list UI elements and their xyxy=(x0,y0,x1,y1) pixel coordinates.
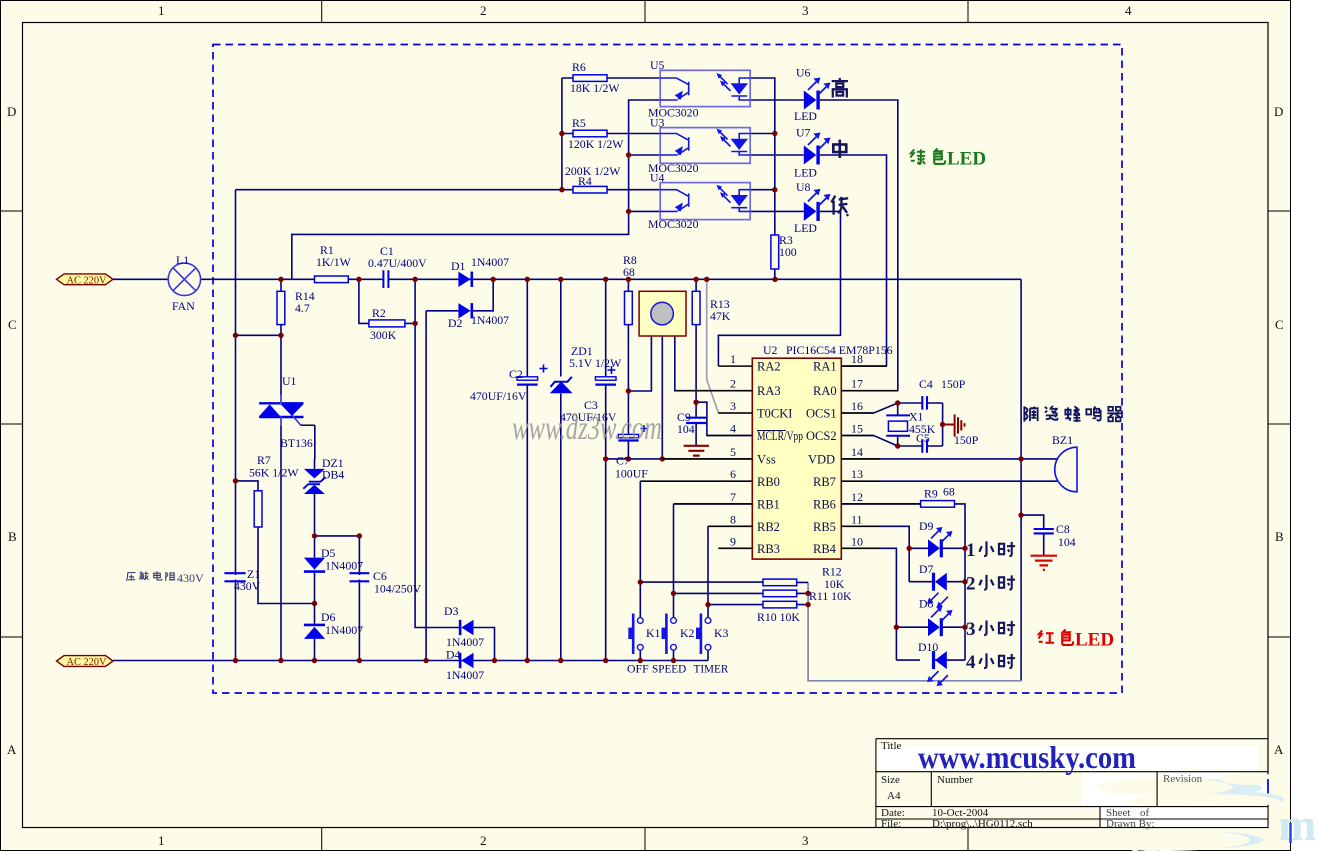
svg-text:2: 2 xyxy=(730,377,736,391)
wire AC neutral bottom bus xyxy=(113,660,708,662)
svg-text:U2: U2 xyxy=(763,343,778,357)
svg-text:12: 12 xyxy=(851,490,863,504)
svg-text:16: 16 xyxy=(851,399,863,413)
svg-text:120K 1/2W: 120K 1/2W xyxy=(568,137,624,151)
svg-text:LED: LED xyxy=(794,166,817,180)
svg-text:RA0: RA0 xyxy=(813,384,837,398)
svg-text:R11 10K: R11 10K xyxy=(809,589,852,603)
svg-text:4: 4 xyxy=(1125,3,1132,18)
wire T0CKI gray link xyxy=(707,279,753,413)
svg-text:1N4007: 1N4007 xyxy=(446,668,484,682)
svg-text:D:\prog\..\HG0112.sch: D:\prog\..\HG0112.sch xyxy=(932,818,1033,830)
wire C8 stub xyxy=(1021,515,1044,555)
IC pin names xyxy=(757,360,837,557)
wire red LED right rail xyxy=(964,548,966,660)
ground below C8 xyxy=(1031,556,1058,570)
svg-text:www.mcusky.com: www.mcusky.com xyxy=(918,739,1136,775)
svg-text:RB6: RB6 xyxy=(813,498,836,512)
wire bus to VDD vertical xyxy=(1020,279,1022,681)
svg-text:LED: LED xyxy=(794,109,817,123)
wire C9 stem xyxy=(695,402,697,445)
resistor R14 xyxy=(277,291,285,324)
varistor Z1 xyxy=(224,573,245,581)
LED D8 xyxy=(928,606,953,636)
svg-text:D8: D8 xyxy=(919,597,934,611)
svg-text:Revision: Revision xyxy=(1163,773,1203,785)
svg-text:3: 3 xyxy=(966,619,976,640)
wire D8 row xyxy=(896,626,965,628)
wire D2 anode vertical xyxy=(425,311,427,661)
svg-text:K3: K3 xyxy=(714,626,729,640)
svg-text:Vss: Vss xyxy=(757,453,776,467)
LED D7 xyxy=(927,573,948,608)
svg-text:BT136: BT136 xyxy=(280,436,313,450)
svg-text:104: 104 xyxy=(677,422,695,436)
svg-text:C5: C5 xyxy=(916,431,930,445)
svg-text:R2: R2 xyxy=(372,306,386,320)
svg-text:U4: U4 xyxy=(650,171,665,185)
svg-text:68: 68 xyxy=(623,265,635,279)
wire RB7 row to buzzer xyxy=(841,480,1057,482)
capacitor C2 xyxy=(517,365,548,385)
diode D3 xyxy=(460,620,473,635)
diode D2 xyxy=(458,303,471,318)
text 红色LED xyxy=(1038,629,1073,644)
svg-text:File:: File: xyxy=(881,818,901,830)
svg-text:9: 9 xyxy=(730,535,736,549)
ground sideways at crystal xyxy=(943,415,965,437)
wire VDD row xyxy=(841,458,1057,460)
wire RB1 to K2 and R11 xyxy=(674,504,753,618)
MOC U5 innards xyxy=(660,73,750,100)
wire R12 left xyxy=(640,581,763,583)
svg-text:A: A xyxy=(7,742,17,757)
MOC box U4 xyxy=(660,183,750,220)
wire R8 C7 branch xyxy=(627,279,629,459)
svg-text:D: D xyxy=(7,104,16,119)
svg-text:1N4007: 1N4007 xyxy=(471,255,509,269)
port AC 220V top xyxy=(57,274,114,286)
wire C5 row xyxy=(898,445,943,447)
svg-text:430V: 430V xyxy=(234,579,261,593)
resistor R7 xyxy=(254,491,262,527)
wire R11 left xyxy=(674,592,764,594)
svg-text:U1: U1 xyxy=(282,374,297,388)
svg-text:D6: D6 xyxy=(321,610,336,624)
svg-text:T0CKI: T0CKI xyxy=(757,407,792,421)
svg-text:D7: D7 xyxy=(919,562,934,576)
resistor R11 xyxy=(763,590,797,597)
wire RB4 rail xyxy=(841,548,896,660)
sensor RT1 xyxy=(639,291,686,336)
svg-text:430V: 430V xyxy=(177,571,204,585)
ground below C9 xyxy=(684,446,709,456)
svg-text:8: 8 xyxy=(730,513,736,527)
svg-text:D2: D2 xyxy=(448,316,463,330)
junction dots bottom bus xyxy=(233,658,676,663)
diode D1 xyxy=(458,272,471,287)
svg-text:www.dz3w.com: www.dz3w.com xyxy=(512,410,662,447)
wire D3 output xyxy=(473,628,494,661)
svg-text:C4: C4 xyxy=(919,377,933,391)
wire D10 row xyxy=(896,659,965,661)
text 绿色LED xyxy=(910,148,945,164)
wire R6-R5-R4 left vertical xyxy=(561,78,563,190)
svg-text:OCS1: OCS1 xyxy=(806,407,837,421)
svg-text:104: 104 xyxy=(1058,535,1076,549)
svg-text:RB7: RB7 xyxy=(813,475,836,489)
junction dots misc xyxy=(233,131,1024,630)
wire left long vertical xyxy=(235,190,237,661)
svg-text:R6: R6 xyxy=(572,60,586,74)
svg-text:C2: C2 xyxy=(509,367,523,381)
chinese 高 xyxy=(832,78,848,98)
wire C4 C5 right link xyxy=(942,403,944,446)
wire K1 bottom xyxy=(639,650,641,660)
svg-text:D9: D9 xyxy=(919,519,934,533)
svg-text:LED: LED xyxy=(1075,630,1114,651)
svg-text:Drawn By:: Drawn By: xyxy=(1106,818,1155,830)
svg-text:FAN: FAN xyxy=(172,299,195,313)
diode D6 xyxy=(304,625,325,639)
wire sensor pin2 to Vss xyxy=(661,336,663,459)
svg-text:RB0: RB0 xyxy=(757,475,780,489)
MOC box U3 xyxy=(660,128,750,164)
svg-text:A: A xyxy=(1274,742,1284,757)
wire C6 branch xyxy=(358,536,360,661)
svg-text:Title: Title xyxy=(881,740,902,752)
capacitor C9 xyxy=(686,418,706,423)
wire OSC1 diagonal xyxy=(841,403,897,413)
svg-text:150P: 150P xyxy=(954,433,979,447)
wire RB0 to K1 and R12 xyxy=(640,481,752,617)
wire RB6 to R9 xyxy=(841,504,965,548)
svg-text:6: 6 xyxy=(730,467,736,481)
wire triac branch xyxy=(280,335,282,660)
svg-text:4: 4 xyxy=(966,652,976,673)
svg-text:RB1: RB1 xyxy=(757,498,780,512)
wire R2 branch xyxy=(359,279,415,323)
svg-text:2: 2 xyxy=(480,3,487,18)
svg-text:RA2: RA2 xyxy=(757,360,781,374)
capacitor C1 xyxy=(383,270,388,289)
LED D9 xyxy=(928,527,953,557)
svg-text:LED: LED xyxy=(794,221,817,235)
svg-text:K2: K2 xyxy=(680,626,695,640)
resistor R10 xyxy=(763,601,797,608)
svg-text:OFF: OFF xyxy=(627,662,649,676)
port AC 220V bottom xyxy=(57,656,114,668)
svg-text:3: 3 xyxy=(802,3,809,18)
wire R12 R11 R10 right ends xyxy=(797,582,808,604)
svg-text:RA1: RA1 xyxy=(813,360,837,374)
svg-text:C: C xyxy=(1275,317,1284,332)
resistor R6 xyxy=(573,75,607,82)
svg-text:D1: D1 xyxy=(451,259,466,273)
svg-text:TIMER: TIMER xyxy=(694,664,729,676)
svg-text:C: C xyxy=(8,317,17,332)
wire R5 row xyxy=(562,133,660,135)
svg-text:DB4: DB4 xyxy=(322,468,344,482)
capacitor C4 xyxy=(922,396,927,410)
svg-text:L1: L1 xyxy=(176,253,189,267)
resistor R12 xyxy=(763,579,797,586)
wire R6 row xyxy=(562,77,660,79)
wire K3 bottom xyxy=(707,650,709,660)
svg-text:2: 2 xyxy=(966,574,976,595)
wire DZ1 to C6 xyxy=(315,535,360,537)
svg-text:C8: C8 xyxy=(1056,522,1070,536)
svg-text:MOC3020: MOC3020 xyxy=(648,217,699,231)
wire R10 left xyxy=(708,604,763,606)
wire MOC outputs to green LEDs xyxy=(750,100,804,211)
resistor R2 xyxy=(369,320,405,327)
wire OSC2 diagonal xyxy=(841,436,897,447)
svg-text:Size: Size xyxy=(881,774,900,786)
svg-text:RB3: RB3 xyxy=(757,542,780,556)
MOC U4 innards xyxy=(660,185,750,212)
text 压敏电阻430V xyxy=(127,571,176,581)
svg-text:1K/1W: 1K/1W xyxy=(316,255,352,269)
svg-text:VDD: VDD xyxy=(808,453,835,467)
wire pin17 riser xyxy=(841,390,898,392)
svg-text:D3: D3 xyxy=(444,604,459,618)
svg-text:47K: 47K xyxy=(710,309,731,323)
capacitor C5 xyxy=(922,439,927,453)
resistor R5 xyxy=(573,130,607,137)
svg-text:4.7: 4.7 xyxy=(295,301,310,315)
MOC box U5 xyxy=(660,70,750,106)
switch K2 xyxy=(662,614,677,655)
svg-text:Number: Number xyxy=(937,774,973,786)
wire C2 branch xyxy=(526,279,528,660)
svg-text:K1: K1 xyxy=(646,626,661,640)
triac U1 BT136 xyxy=(259,395,315,426)
svg-text:18K 1/2W: 18K 1/2W xyxy=(570,81,620,95)
svg-text:1: 1 xyxy=(966,540,976,561)
wire U7 cathode to pin18 xyxy=(820,155,887,366)
svg-text:11: 11 xyxy=(851,513,863,527)
diode D4 xyxy=(460,653,473,668)
svg-text:B: B xyxy=(8,529,17,544)
svg-text:RA3: RA3 xyxy=(757,384,781,398)
switch K1 xyxy=(628,614,643,655)
svg-text:1: 1 xyxy=(158,3,165,18)
svg-text:D4: D4 xyxy=(446,648,461,662)
wire U6 cathode to pin17 xyxy=(820,100,898,391)
chinese 低 xyxy=(831,196,848,216)
wire RB5 rail xyxy=(841,526,909,581)
svg-text:U3: U3 xyxy=(650,116,665,130)
wire R13 branch xyxy=(695,279,697,402)
svg-text:BZ1: BZ1 xyxy=(1052,433,1073,447)
svg-text:U6: U6 xyxy=(796,66,811,80)
svg-text:R4: R4 xyxy=(578,174,592,188)
IC pin numbers xyxy=(730,352,863,549)
junction dots top bus xyxy=(278,277,778,282)
IC U2 PIC16C54 xyxy=(640,358,920,559)
svg-text:B: B xyxy=(1275,529,1284,544)
svg-text:14: 14 xyxy=(851,445,863,459)
wire crystal stems xyxy=(897,403,899,446)
svg-text:SPEED: SPEED xyxy=(652,664,686,676)
svg-text:0.47U/400V: 0.47U/400V xyxy=(368,256,427,270)
selection dashed rectangle xyxy=(213,45,1122,694)
svg-text:150P: 150P xyxy=(941,377,966,391)
capacitor C7 xyxy=(618,425,647,441)
wire D9 row xyxy=(909,547,965,549)
capacitor C6 xyxy=(350,573,370,581)
switch K3 xyxy=(696,614,711,655)
wire R7 branch xyxy=(236,481,315,604)
capacitor C8 xyxy=(1034,529,1054,533)
svg-text:56K 1/2W: 56K 1/2W xyxy=(249,466,299,480)
wire C3 branch xyxy=(605,279,607,660)
wire sensor pin3 to RA3 xyxy=(675,336,753,391)
resistor R1 xyxy=(315,276,349,283)
svg-text:U7: U7 xyxy=(796,126,811,140)
svg-text:MCLR/Vpp: MCLR/Vpp xyxy=(757,429,803,443)
svg-text:U8: U8 xyxy=(796,180,811,194)
svg-text:3: 3 xyxy=(802,833,809,848)
svg-text:AC 220V: AC 220V xyxy=(67,656,107,668)
lamp L1 FAN xyxy=(168,263,200,295)
svg-text:C7: C7 xyxy=(616,454,630,468)
svg-text:5.1V 1/2W: 5.1V 1/2W xyxy=(569,356,622,370)
wire R14 branch xyxy=(236,279,282,335)
wire pin9 stub xyxy=(718,547,752,549)
svg-text:5: 5 xyxy=(730,445,736,459)
svg-text:10: 10 xyxy=(851,535,863,549)
wire pull-up return gray loop xyxy=(808,582,1021,680)
LED U6 xyxy=(804,78,831,110)
svg-text:1: 1 xyxy=(730,352,736,366)
resistor R4 xyxy=(573,186,607,193)
wire D7 row xyxy=(909,581,965,583)
svg-text:1: 1 xyxy=(158,833,165,848)
chinese 中 xyxy=(833,140,846,158)
svg-text:R10 10K: R10 10K xyxy=(757,610,800,624)
svg-text:3: 3 xyxy=(730,399,736,413)
svg-text:D: D xyxy=(1274,104,1283,119)
resistor R3 xyxy=(771,235,779,269)
wire pin18 riser xyxy=(841,365,887,367)
svg-text:200K 1/2W: 200K 1/2W xyxy=(565,164,621,178)
svg-text:U5: U5 xyxy=(650,58,665,72)
wire ZD1 branch xyxy=(560,279,562,660)
svg-text:R9: R9 xyxy=(924,487,938,501)
svg-text:1N4007: 1N4007 xyxy=(471,313,509,327)
wire AC live top bus xyxy=(113,278,1021,280)
LED U7 xyxy=(804,133,831,165)
wire C1-right vertical to D3 xyxy=(415,279,461,627)
svg-text:RB5: RB5 xyxy=(813,520,836,534)
svg-text:104/250V: 104/250V xyxy=(374,582,422,596)
diode D5 xyxy=(304,558,325,572)
zener ZD1 xyxy=(551,377,572,393)
svg-text:68: 68 xyxy=(943,485,955,499)
svg-text:4: 4 xyxy=(730,422,736,436)
resistor R9 xyxy=(921,501,955,508)
svg-text:2: 2 xyxy=(480,833,487,848)
wire C4 row xyxy=(898,402,943,404)
svg-text:1N4007: 1N4007 xyxy=(325,559,363,573)
wire R4 row xyxy=(236,189,661,191)
wire MOC anode tops to R3 xyxy=(750,78,775,279)
wire Vss row xyxy=(606,458,753,460)
svg-text:PIC16C54 EM78P156: PIC16C54 EM78P156 xyxy=(786,343,893,357)
svg-text:18: 18 xyxy=(851,352,863,366)
cyan watermark remnants xyxy=(1118,779,1316,851)
svg-text:300K: 300K xyxy=(370,328,397,342)
svg-text:1N4007: 1N4007 xyxy=(325,623,363,637)
wire K2 bottom xyxy=(673,650,675,660)
svg-text:15: 15 xyxy=(851,422,863,436)
buzzer BZ1 xyxy=(1055,447,1077,492)
svg-text:17: 17 xyxy=(851,377,863,391)
svg-text:OCS2: OCS2 xyxy=(806,429,837,443)
svg-text:100UF: 100UF xyxy=(615,467,648,481)
crystal X1 xyxy=(886,415,910,435)
svg-text:R5: R5 xyxy=(572,116,586,130)
svg-text:D10: D10 xyxy=(918,640,938,654)
svg-text:RB4: RB4 xyxy=(813,542,837,556)
diac DZ1 DB4 xyxy=(303,469,325,494)
wire D2 branch xyxy=(426,279,493,311)
resistor R8 xyxy=(625,291,633,324)
wire U8 cathode to pin1 xyxy=(718,211,840,366)
wire MCLR reroute xyxy=(696,402,752,435)
wire R8 to sensor pin1 xyxy=(628,336,651,391)
wire diac D5 D6 chain xyxy=(314,425,316,660)
text 陶瓷蜂鸣器 xyxy=(1024,406,1121,422)
svg-text:RB2: RB2 xyxy=(757,520,780,534)
svg-text:13: 13 xyxy=(851,467,863,481)
svg-text:m: m xyxy=(1278,799,1316,850)
LED D10 xyxy=(927,651,948,686)
MOC U3 innards xyxy=(660,129,750,156)
svg-text:A4: A4 xyxy=(887,790,901,802)
resistor R13 xyxy=(692,291,700,324)
svg-text:7: 7 xyxy=(730,490,736,504)
wire MOC cathode return xyxy=(292,100,660,279)
svg-text:100: 100 xyxy=(779,245,797,259)
capacitor C3 xyxy=(595,366,616,385)
svg-text:AC 220V: AC 220V xyxy=(67,274,107,286)
LED U8 xyxy=(804,189,831,221)
wire RB2 to K3 and R10 xyxy=(708,526,752,617)
svg-text:LED: LED xyxy=(947,149,986,170)
svg-text:470UF/16V: 470UF/16V xyxy=(470,389,527,403)
